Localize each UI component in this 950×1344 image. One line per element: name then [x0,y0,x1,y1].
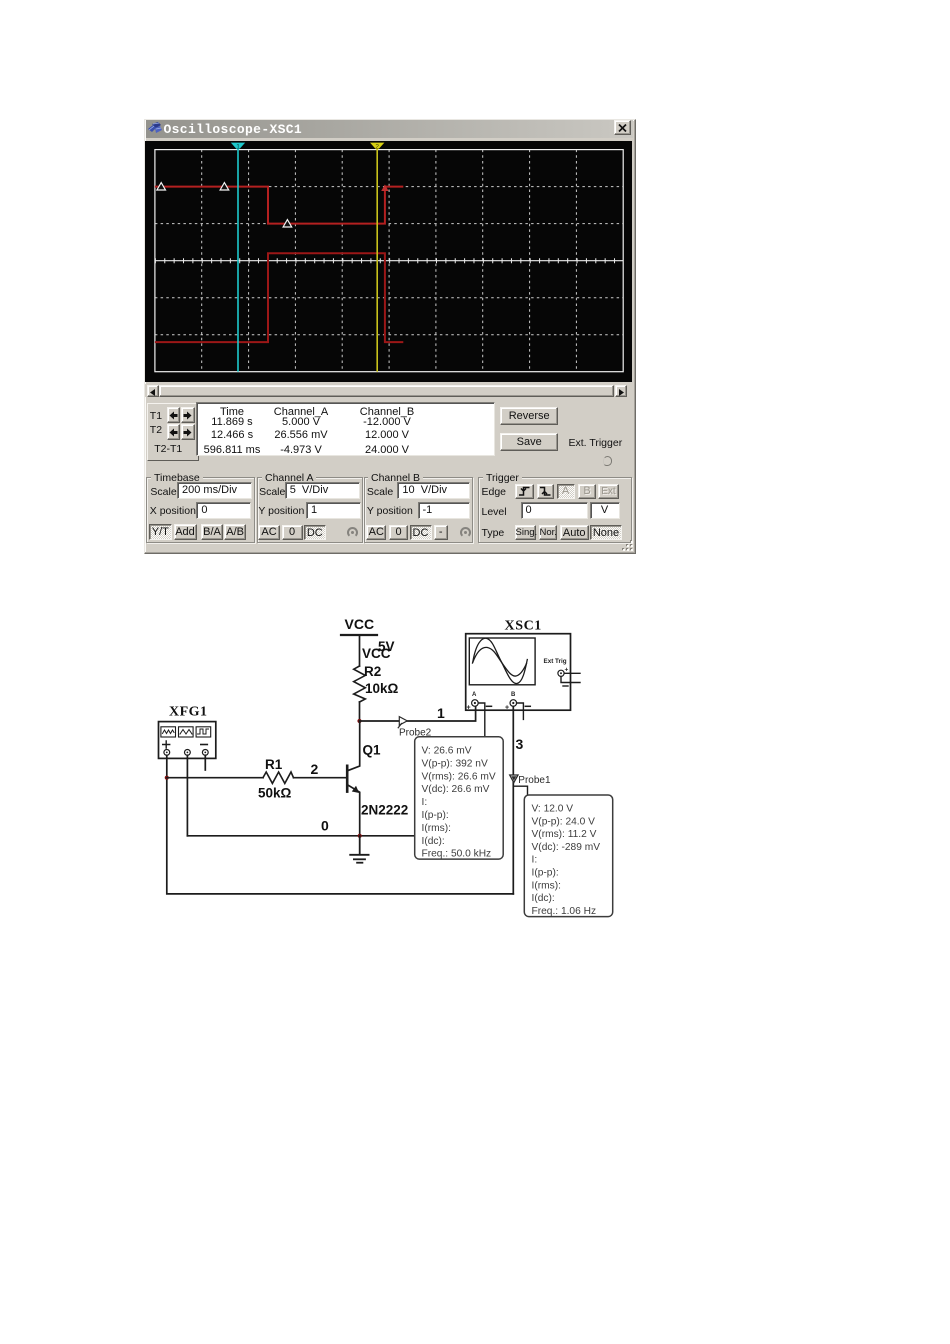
screen sine curve 1 [473,638,528,683]
wire XFG1 minus stub [204,755,206,770]
trigger indicator circle [603,456,613,466]
net 0 wire [187,835,414,837]
svg-text:VCC: VCC [345,616,375,632]
title bar icon [147,121,163,135]
resize grip [620,538,634,552]
oscilloscope icon screen [469,638,535,685]
probe Probe1 arrow [510,775,518,783]
square wave button [196,727,211,737]
wire XFG1 common down to net 0 [186,755,188,836]
wire scope B minus stub [517,703,524,719]
wire node 3 vertical from B [512,707,514,894]
ground symbol [350,836,368,863]
svg-text:Q1: Q1 [363,743,382,758]
node 1 junction [357,719,361,723]
svg-text:+: + [565,667,569,674]
Reverse button [500,407,558,425]
scope graph display [145,141,632,382]
emitter junction dot [358,834,362,838]
XFG1 plus terminal sign [163,741,170,748]
ext trig terminal [558,667,580,687]
wire scope A minus stub down to Probe2 box [478,703,485,737]
close button [614,120,631,135]
cursor 1 (cyan) [237,149,239,371]
Channel B group [364,477,474,543]
channel A trace [154,186,402,223]
wire VCC to R2 [359,635,361,666]
sine wave button [161,727,176,737]
XFG1 minus terminal sign [201,744,208,746]
horizontal scrollbar [145,384,632,397]
title text [164,122,303,137]
white trace markers [156,182,291,226]
Channel A group [257,477,363,543]
svg-text:+: + [467,705,471,712]
svg-text:3: 3 [516,736,524,752]
svg-text:A: A [472,692,477,698]
readout box [196,402,496,456]
XFG1 terminals [164,750,208,756]
oscilloscope window frame [144,119,636,554]
trace edge marker arrow [381,184,388,191]
title bar [146,120,633,138]
svg-text:Ext Trig: Ext Trig [544,658,567,665]
svg-text:2N2222: 2N2222 [361,803,408,818]
Trigger group [478,477,632,543]
svg-text:Probe1: Probe1 [518,775,551,786]
transistor Q1 [347,721,360,836]
triangle wave button [179,727,194,737]
oscilloscope icon body [466,634,571,711]
svg-text:10kΩ: 10kΩ [365,681,399,696]
graph axis center line with ticks [154,260,622,262]
Save button [500,433,558,451]
screen sine curve 2 [473,647,527,676]
scope terminal A [467,692,492,712]
wire R2 to collector node [359,702,361,721]
svg-text:2: 2 [311,761,319,777]
measurement box Probe1 [524,795,612,917]
svg-text:XFG1: XFG1 [169,705,208,720]
graph border frame [154,149,622,371]
measurement box Probe2 [415,737,504,860]
resistor R2 [354,666,366,702]
svg-text:+: + [505,705,509,712]
grid horizontal dashed lines [154,186,622,334]
wire to R1 [167,777,263,779]
svg-text:R1: R1 [265,757,283,772]
svg-text:0: 0 [321,818,329,834]
channel B trace [154,253,402,342]
svg-text:1: 1 [437,705,445,721]
wire node 1 to scope A [360,707,476,722]
svg-text:50kΩ: 50kΩ [258,786,292,801]
svg-text:XSC1: XSC1 [505,619,542,634]
grid vertical dashed lines [201,149,576,371]
power VCC symbol [341,616,377,635]
probe1 leader wire [513,786,527,795]
T1/T2 cursor control block [147,403,199,461]
Timebase group [146,477,255,543]
cursor 2 (yellow) [376,149,378,371]
probe Probe2 arrow [398,717,407,728]
svg-text:R2: R2 [364,664,381,679]
function generator body [159,722,216,759]
junction XFG1 output to R1 [165,776,169,780]
wire R1 to base [294,777,347,779]
resistor R1 [263,772,294,783]
svg-text:VCC: VCC [362,646,391,661]
svg-text:B: B [511,692,516,698]
wire bottom return to XFG1 [167,755,514,894]
scope terminal B [505,692,530,712]
